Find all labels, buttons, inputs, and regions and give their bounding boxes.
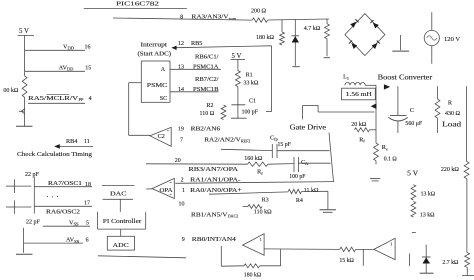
svg-text:100 pF: 100 pF [289, 174, 306, 180]
ground rail vertical [23, 228, 25, 253]
svg-text:11: 11 [84, 139, 90, 145]
svg-text:2.7 kΩ: 2.7 kΩ [442, 260, 459, 266]
resistor 180k bottom [221, 264, 262, 279]
ground bar [16, 253, 33, 255]
pin label 17 / RA6/OSC2 [46, 200, 90, 215]
wire MCLR rail lower [24, 97, 26, 126]
svg-text:4.7 kΩ: 4.7 kΩ [304, 26, 321, 32]
svg-text:180 kΩ: 180 kΩ [244, 273, 262, 279]
svg-text:C: C [410, 107, 414, 114]
svg-text:RA6/OSC2: RA6/OSC2 [46, 209, 80, 216]
pin 14 RB7/C2/PSMC1B label [178, 76, 219, 93]
pin 5 Vss label [69, 219, 89, 226]
svg-text:RB3/AN7/OPA: RB3/AN7/OPA [189, 166, 239, 173]
svg-text:SC: SC [160, 96, 167, 102]
label Gate Drive [290, 123, 327, 131]
resistor 13k upper [411, 185, 436, 200]
resistor R4 11k [288, 188, 328, 204]
resistor 100k MCLR pullup [22, 76, 27, 97]
pin 8 RA3/AN3/Vsum label [180, 14, 237, 21]
arrow boost [384, 84, 390, 89]
capacitor C osc2 [6, 200, 31, 213]
crystal bus vertical [33, 177, 35, 214]
pin 4 RA5/MCLR/VPP label [28, 94, 91, 102]
svg-text:1: 1 [260, 237, 262, 242]
pin 16 VDD wire [25, 49, 85, 51]
resistor 15k [339, 247, 355, 264]
pin 18 RA7/OSC1 wire [34, 186, 92, 188]
capacitor 22pF bottom label [26, 220, 41, 226]
svg-text:430 Ω: 430 Ω [445, 111, 461, 117]
wire 15k to buffer2 [356, 248, 374, 250]
capacitor Cfp 15pF [270, 134, 330, 158]
note Check Calculation Timing [17, 151, 93, 158]
svg-text:7: 7 [180, 137, 183, 143]
inductor L1 [343, 74, 365, 86]
svg-text:13 kΩ: 13 kΩ [420, 213, 435, 219]
svg-text:00 kΩ: 00 kΩ [3, 88, 19, 94]
pin 11 wire with left arrow [54, 144, 93, 149]
svg-text:R3: R3 [262, 197, 269, 203]
svg-text:PIC16C782: PIC16C782 [116, 0, 159, 7]
junction arrow on MCLR rail [19, 109, 25, 114]
wire PSMC left input [129, 82, 142, 84]
resistor 220k [441, 161, 469, 178]
svg-text:110 kΩ: 110 kΩ [254, 210, 272, 216]
IC U1 PIC16C782 title [116, 0, 159, 7]
node 5V supply right [407, 169, 419, 178]
svg-text:PI Controller: PI Controller [103, 218, 142, 225]
svg-text:2: 2 [181, 177, 184, 183]
svg-text:C2: C2 [158, 133, 165, 140]
svg-text:19: 19 [178, 126, 184, 132]
svg-text:RA1/AN1/OPA-: RA1/AN1/OPA- [190, 176, 241, 183]
pin 4 wire [28, 102, 85, 104]
svg-text:PP: PP [79, 97, 84, 102]
svg-text:1: 1 [182, 188, 185, 194]
svg-text:560 μF: 560 μF [405, 121, 422, 127]
pin 17 RA6/OSC2 wire [34, 205, 92, 207]
svg-text:RB0/INT/AN4: RB0/INT/AN4 [192, 236, 236, 243]
svg-text:15: 15 [85, 65, 91, 71]
resistor Rs 0.1 ohm [374, 143, 398, 164]
svg-text:15 pF: 15 pF [278, 142, 292, 148]
wire C2 output bus [129, 83, 150, 136]
pin 7 RA2/AN2/Vref2 label [180, 136, 250, 143]
svg-text:5 V: 5 V [19, 28, 29, 35]
zener diode D1 [292, 19, 300, 66]
pin 12 wire with left arrow [171, 46, 271, 50]
pin 20 RB3/AN7/OPA label [189, 166, 239, 173]
svg-text:RB6/C1/: RB6/C1/ [195, 54, 219, 61]
capacitor C1 100pF [231, 87, 259, 119]
svg-text:ADC: ADC [113, 242, 129, 249]
capacitor C osc1 [6, 179, 31, 193]
wire feedback bus [329, 133, 334, 183]
pin 12 RB5 label [178, 40, 202, 47]
svg-text:PSMC: PSMC [147, 82, 168, 89]
pin 11 RB4 label [66, 138, 90, 145]
svg-text:OPA: OPA [160, 188, 174, 194]
wire L1 to switch [365, 84, 376, 86]
resistor 200 ohm [251, 8, 268, 22]
svg-text:6: 6 [86, 238, 89, 244]
pin 13 RB6/C1/PSMC1A label [178, 54, 219, 71]
svg-text:RB7/C2/: RB7/C2/ [195, 76, 219, 83]
svg-text:(Start ADC): (Start ADC) [138, 51, 172, 58]
svg-text:17: 17 [84, 200, 90, 206]
resistor 13k lower [411, 201, 435, 218]
pin 10 RB1/AN5/Vdac2 label [191, 212, 238, 219]
AC source 120V [424, 12, 460, 64]
svg-text:8: 8 [180, 15, 183, 21]
svg-text:11 kΩ: 11 kΩ [304, 188, 319, 194]
svg-text:100 pF: 100 pF [242, 109, 259, 115]
ground Rs [370, 179, 380, 181]
svg-text:RA5/MCLR/V: RA5/MCLR/V [28, 95, 79, 102]
pin label AVDD 15 [59, 64, 92, 71]
pin 10 label [179, 202, 185, 208]
pin 8 wire [113, 18, 252, 20]
svg-text:RA2/AN2/V: RA2/AN2/V [204, 136, 241, 143]
op-amp OPA [152, 178, 174, 198]
wire drop to 180k [260, 249, 281, 266]
bridge rectifier BR1 [345, 14, 385, 56]
svg-text:RA7/OSC1: RA7/OSC1 [48, 180, 82, 187]
ground R4 [320, 191, 337, 212]
capacitor Cfs 100pF [289, 157, 330, 180]
svg-text:120 V: 120 V [444, 36, 460, 43]
resistor Rf 160k [244, 156, 294, 176]
wire buffer output [264, 248, 340, 251]
node 5V supply left [18, 28, 34, 35]
svg-text:1: 1 [390, 241, 392, 246]
wire bottom bus from ADC region [98, 256, 186, 258]
svg-text:4: 4 [89, 96, 92, 102]
svg-text:12: 12 [178, 41, 184, 47]
block PI Controller [98, 212, 146, 229]
terminal bar bottom of MCLR rail [16, 125, 33, 127]
svg-text:Interrupt: Interrupt [141, 43, 168, 49]
wire gate drive to switch [303, 105, 375, 119]
pin 6 AVss wire [24, 242, 83, 244]
resistor 2.7k [442, 253, 469, 268]
svg-text:RB4: RB4 [66, 138, 77, 145]
svg-text:20 kΩ: 20 kΩ [351, 122, 367, 128]
pin 15 AVDD wire [25, 70, 85, 72]
svg-text:Gate Drive: Gate Drive [290, 123, 327, 131]
block PSMC [141, 61, 170, 102]
svg-text:22 pF: 22 pF [25, 172, 40, 178]
pin 2 RA1/AN1/OPA- label [181, 176, 241, 183]
svg-text:5 V: 5 V [407, 169, 419, 178]
wire stub right of buffer2 [409, 254, 411, 267]
label Boost Converter [378, 74, 433, 82]
wire RB5 to gate network corner [266, 46, 272, 112]
svg-text:33 kΩ: 33 kΩ [243, 80, 259, 86]
pin 20 label [175, 158, 181, 164]
pin 5 wire [43, 225, 90, 227]
resistor 180k clamp [256, 20, 284, 45]
comparator U4 buffer right [374, 238, 395, 259]
svg-text:180 kΩ: 180 kΩ [256, 35, 275, 41]
svg-text:RB2/AN6: RB2/AN6 [191, 125, 221, 132]
svg-text:16: 16 [85, 44, 91, 50]
PIC16C782 title underline [84, 8, 187, 10]
svg-text:160 kΩ: 160 kΩ [244, 156, 262, 162]
svg-text:DAC: DAC [110, 190, 127, 197]
svg-text:110 Ω: 110 Ω [200, 111, 215, 117]
resistor R load 430 ohm [435, 86, 462, 133]
pin 20 wire [146, 163, 248, 165]
ground bridge output [392, 35, 409, 51]
svg-text:DAC2: DAC2 [228, 214, 238, 219]
label 100 kOhm (left-clipped) [3, 88, 19, 94]
capacitor C 560uF [389, 86, 423, 133]
wire 5V rail down [24, 35, 26, 76]
pin 7 wire to Cfp [221, 149, 272, 150]
diode D2 [420, 245, 434, 274]
node 5V supply mid [231, 53, 246, 60]
svg-text:0.1 Ω: 0.1 Ω [384, 156, 398, 162]
wire PI to ADC [120, 229, 122, 236]
svg-text:RA0/AN0/OPA+: RA0/AN0/OPA+ [190, 187, 242, 194]
svg-text:18: 18 [85, 182, 91, 188]
svg-text:22 pF: 22 pF [26, 220, 41, 226]
comparator U3 buffer left [243, 234, 265, 256]
svg-text:15 kΩ: 15 kΩ [339, 258, 354, 264]
resistor Rf 20k [351, 122, 376, 144]
wire 200ohm to 4.7k corner [268, 19, 330, 20]
crystal dots [47, 196, 58, 198]
svg-text:R1: R1 [246, 72, 253, 78]
svg-text:200 Ω: 200 Ω [251, 8, 267, 14]
wire right rail [462, 86, 474, 275]
svg-text:13 kΩ: 13 kΩ [421, 191, 436, 197]
svg-text:10: 10 [179, 202, 185, 208]
block ADC [107, 236, 134, 250]
pin 2 wire (OPA inverting) [175, 182, 333, 184]
svg-text:Load: Load [442, 122, 462, 129]
wire DAC to PI [119, 199, 121, 212]
svg-text:9: 9 [182, 237, 185, 243]
svg-text:Check Calculation Timing: Check Calculation Timing [17, 151, 93, 158]
svg-text:1.56 mH: 1.56 mH [346, 92, 373, 98]
svg-text:20: 20 [175, 158, 181, 164]
pin 6 AVss label [66, 237, 89, 244]
svg-text:C1: C1 [249, 98, 256, 104]
wire drop below [362, 249, 364, 265]
label box 1.56 mH [342, 88, 376, 100]
pin label RA7/OSC1 18 [48, 180, 91, 188]
svg-text:RB1/AN5/V: RB1/AN5/V [191, 212, 228, 219]
svg-text:R2: R2 [207, 103, 214, 109]
svg-text:5: 5 [86, 220, 89, 226]
svg-text:RB5: RB5 [191, 40, 202, 47]
pin 19 RB2/AN6 label [178, 125, 220, 132]
pin 1 RA0/AN0/OPA+ label [182, 187, 242, 194]
resistor 4.7k [304, 19, 330, 58]
pin 1 wire (OPA non-inverting) [209, 192, 288, 194]
node minus mark [412, 232, 416, 234]
svg-text:A: A [161, 67, 166, 73]
resistor R2 110 ohm [200, 103, 226, 120]
svg-text:Boost Converter: Boost Converter [378, 74, 433, 82]
pin 9 RB0/INT/AN4 label [182, 236, 236, 243]
block DAC [102, 186, 134, 200]
pin label VDD 16 [63, 43, 91, 50]
svg-text:R4: R4 [296, 198, 303, 204]
comparator C2 [150, 127, 171, 146]
pin 13 wire [170, 68, 221, 70]
pin 9 wire down [220, 246, 222, 266]
wire OPA output stub to DAC [146, 188, 152, 190]
svg-text:220 kΩ: 220 kΩ [441, 167, 460, 173]
resistor R1 33k [236, 60, 259, 87]
note Interrupt (Start ADC) [138, 43, 172, 58]
resistor R3 110k [243, 197, 272, 215]
pin 14 wire [170, 91, 219, 93]
switch MOSFET line [371, 85, 377, 143]
svg-text:REF2: REF2 [241, 139, 250, 144]
capacitor 22pF top label [25, 172, 40, 178]
